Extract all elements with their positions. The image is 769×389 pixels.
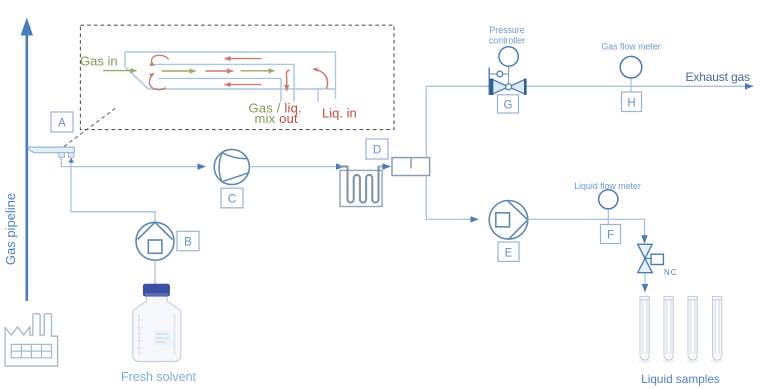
contactor device A (tube-in-tube icon): [28, 147, 74, 153]
svg-text:controller: controller: [489, 36, 525, 46]
wire: valve outlet down to sample tubes: [644, 274, 646, 293]
fresh solvent bottle: [133, 284, 181, 362]
svg-text:Fresh solvent: Fresh solvent: [121, 370, 197, 384]
gas pipeline vertical arrow: [25, 33, 28, 301]
inset: inner tube: [153, 64, 294, 102]
factory windows grid: [11, 344, 51, 357]
svg-text:H: H: [627, 98, 635, 110]
pump E (liquid pump): [489, 201, 528, 240]
wire: pump E to sampling valve: [528, 219, 645, 243]
inset: red annulus arrow bottom (leftward): [225, 84, 262, 86]
valve actuator square: [645, 257, 651, 259]
pressure controller instrument circle: [499, 47, 518, 66]
pilot line with small circle: [489, 73, 508, 75]
gas flow meter H: [630, 78, 632, 92]
svg-text:C: C: [228, 194, 236, 206]
tag box F: [601, 225, 621, 244]
inset: red u-turn curl arrow bottom-left: [149, 73, 166, 89]
wire: pump B suction from bottle: [154, 261, 156, 285]
svg-text:Exhaust gas: Exhaust gas: [686, 70, 751, 84]
inset: green flow arrow 2 in inner tube: [241, 70, 275, 72]
tag box C: [221, 188, 243, 208]
back-pressure control valve G: [489, 47, 525, 95]
inset: red flow arrow in inner tube: [206, 70, 234, 72]
sample tube 4: [713, 297, 722, 361]
inset: red u-turn curl arrow top-left: [151, 55, 168, 65]
factory icon: [5, 314, 58, 366]
coil serpentine: [339, 167, 383, 203]
svg-text:D: D: [373, 145, 381, 157]
sample tube 1: [640, 297, 649, 361]
wire: coil outlet arrow into separator: [379, 166, 391, 168]
svg-text:Gas flow meter: Gas flow meter: [601, 42, 660, 52]
wire: solvent feed line B outlet up to device A right port: [71, 163, 155, 224]
tag box E: [498, 242, 519, 261]
device A ports: [59, 153, 64, 158]
inset: red liquid inlet curved arrow: [313, 69, 327, 89]
tag box A: [51, 112, 73, 132]
svg-text:Gas in: Gas in: [80, 54, 118, 69]
callout leader dashed line from device A to inset: [64, 107, 117, 147]
pump C (mix pump): [214, 149, 249, 184]
wire: separator gas outlet riser: [425, 86, 427, 157]
inset: red annulus arrow top (leftward): [225, 58, 262, 60]
valve end bars: [491, 79, 494, 95]
tag box H: [622, 92, 642, 112]
svg-text:Liq. in: Liq. in: [322, 106, 357, 121]
svg-text:Liquid samples: Liquid samples: [641, 372, 720, 386]
pilot bracket: [488, 68, 490, 95]
wire: pump C to coil D: [250, 166, 345, 168]
svg-text:G: G: [504, 100, 513, 112]
inset: red mix outlet arrow (down through port): [286, 70, 290, 91]
pump B (solvent pump): [136, 222, 174, 260]
svg-text:B: B: [184, 237, 192, 249]
svg-text:F: F: [607, 230, 614, 242]
inset: outer tube shell: [125, 52, 336, 102]
tag box B: [177, 231, 199, 251]
valve center disc: [506, 84, 512, 90]
svg-text:mix out: mix out: [255, 111, 298, 126]
svg-text:Gas pipeline: Gas pipeline: [3, 193, 18, 265]
svg-text:E: E: [505, 248, 513, 260]
separator vessel: [392, 158, 430, 176]
liquid flow meter F: [607, 209, 609, 225]
sample tube 2: [664, 297, 673, 361]
inset: gas inlet green arrow: [103, 70, 137, 72]
tag box G: [498, 95, 519, 113]
wire: mix outlet from device A down then right to pump C: [61, 156, 205, 167]
separator internal weir: [410, 158, 412, 169]
svg-text:Liquid flow meter: Liquid flow meter: [574, 181, 641, 191]
svg-text:A: A: [58, 118, 66, 130]
wire: separator liquid outlet down and right to pump E: [426, 176, 478, 220]
svg-text:Pressure: Pressure: [489, 25, 524, 35]
sampling valve NC (normally closed): [638, 244, 653, 258]
actuator stem: [508, 66, 510, 85]
sample tube shadows: [638, 359, 724, 363]
inset: green flow arrow 1 in inner tube: [162, 70, 196, 72]
coil reactor box D: [340, 170, 382, 206]
valve bowtie: [492, 79, 509, 94]
wire: gas line to exhaust: [426, 85, 753, 87]
sample tube 3: [688, 297, 697, 361]
inset callout dashed box (magnified view of contactor A): [80, 25, 394, 129]
tag box D: [366, 139, 388, 159]
svg-text:NC: NC: [664, 268, 678, 277]
